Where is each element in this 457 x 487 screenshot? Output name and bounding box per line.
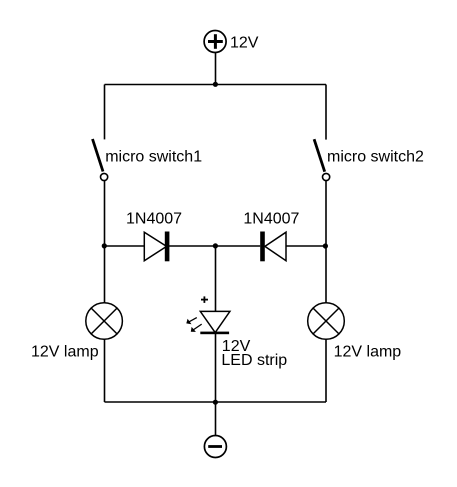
svg-text:LED strip: LED strip bbox=[221, 352, 287, 369]
svg-text:12V: 12V bbox=[230, 34, 259, 51]
svg-text:12V lamp: 12V lamp bbox=[334, 344, 402, 361]
svg-text:1N4007: 1N4007 bbox=[243, 210, 299, 227]
svg-text:micro switch2: micro switch2 bbox=[327, 149, 424, 166]
svg-text:micro switch1: micro switch1 bbox=[105, 149, 202, 166]
svg-text:1N4007: 1N4007 bbox=[126, 210, 182, 227]
svg-text:12V lamp: 12V lamp bbox=[31, 344, 99, 361]
